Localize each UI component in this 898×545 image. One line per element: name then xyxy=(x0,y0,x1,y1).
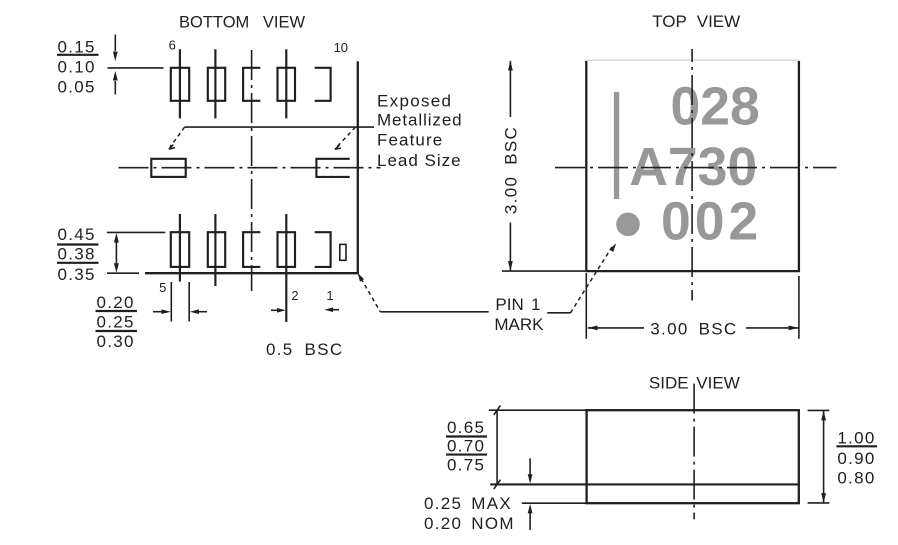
svg-text:002: 002 xyxy=(661,193,762,252)
svg-text:BOTTOM VIEW: BOTTOM VIEW xyxy=(179,13,305,31)
svg-text:2: 2 xyxy=(291,288,298,303)
svg-text:0.80: 0.80 xyxy=(837,469,875,488)
svg-text:0.25: 0.25 xyxy=(97,313,135,332)
svg-text:Metallized: Metallized xyxy=(377,111,463,130)
svg-text:MARK: MARK xyxy=(494,315,544,334)
svg-text:0.38: 0.38 xyxy=(58,245,96,264)
svg-text:PIN 1: PIN 1 xyxy=(495,295,540,314)
svg-text:1.00: 1.00 xyxy=(837,429,875,448)
svg-text:0.75: 0.75 xyxy=(447,455,485,474)
svg-text:5: 5 xyxy=(159,280,166,295)
svg-text:0.25 MAX: 0.25 MAX xyxy=(424,494,512,513)
svg-text:TOP VIEW: TOP VIEW xyxy=(652,12,740,31)
svg-text:0.65: 0.65 xyxy=(447,418,485,437)
svg-text:6: 6 xyxy=(169,37,176,52)
svg-text:0.35: 0.35 xyxy=(58,265,96,284)
svg-text:0.5 BSC: 0.5 BSC xyxy=(266,340,343,359)
svg-text:028: 028 xyxy=(671,77,760,136)
svg-text:10: 10 xyxy=(334,40,348,55)
svg-text:3.00 BSC: 3.00 BSC xyxy=(502,126,521,214)
svg-text:0.10: 0.10 xyxy=(58,58,96,77)
svg-text:0.45: 0.45 xyxy=(58,225,96,244)
svg-text:0.30: 0.30 xyxy=(97,332,135,351)
svg-text:1: 1 xyxy=(326,288,333,303)
svg-text:Feature: Feature xyxy=(377,130,443,149)
svg-text:0.20: 0.20 xyxy=(97,293,135,312)
svg-text:0.90: 0.90 xyxy=(837,449,875,468)
svg-text:0.05: 0.05 xyxy=(58,77,96,96)
svg-text:Lead Size: Lead Size xyxy=(377,151,462,170)
svg-text:0.70: 0.70 xyxy=(447,437,485,456)
svg-text:Exposed: Exposed xyxy=(377,92,452,111)
svg-text:3.00 BSC: 3.00 BSC xyxy=(650,319,737,338)
svg-text:0.15: 0.15 xyxy=(58,37,96,56)
svg-text:0.20 NOM: 0.20 NOM xyxy=(424,514,515,533)
